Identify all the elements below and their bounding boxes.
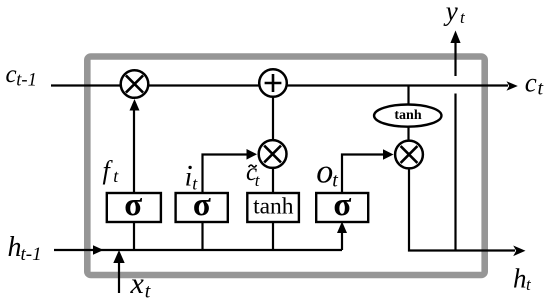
svg-text:t: t — [145, 281, 151, 303]
wire candidate vertical (x=273, c-line to h-line) — [272, 85, 274, 250]
arrowhead c_t — [507, 81, 518, 90]
wire x_t input vertical — [118, 261, 120, 293]
svg-text:ı: ı — [185, 161, 193, 191]
svg-text:h: h — [8, 232, 22, 263]
label c-tilde_t — [246, 159, 261, 190]
arrowhead on h-line entry — [93, 245, 104, 255]
wire forget-gate vertical (x=134) — [133, 103, 135, 250]
multiplier node forget (x) — [121, 70, 149, 98]
svg-text:t: t — [332, 169, 338, 191]
gate box sigma o — [316, 193, 368, 222]
svg-text:o: o — [316, 153, 333, 190]
label f_t — [103, 156, 120, 186]
gate box tanh — [247, 193, 299, 222]
svg-text:c: c — [525, 67, 537, 97]
gate box sigma f — [107, 193, 161, 222]
svg-text:t-1: t-1 — [16, 71, 37, 91]
wire y_t vertical upper segment — [454, 41, 456, 76]
arrowhead into sigma o box — [337, 222, 347, 234]
arrowhead into output multiplier — [383, 149, 394, 160]
arrowhead into input multiplier — [247, 149, 258, 160]
arrowhead y_t — [450, 31, 460, 44]
label h_t — [513, 263, 532, 294]
wire output-gate elbow to right multiplier (x=342) — [342, 155, 385, 193]
wire c-line (cell state, y=85) — [51, 84, 508, 86]
svg-text:y: y — [443, 0, 458, 26]
svg-text:σ: σ — [333, 187, 351, 223]
label x_t — [130, 267, 151, 303]
label h_{t-1} — [8, 232, 42, 265]
wire h output path — [409, 160, 515, 251]
svg-text:h: h — [513, 263, 527, 293]
label o_t — [316, 153, 338, 191]
svg-text:x: x — [130, 267, 145, 300]
gate box sigma i — [176, 193, 228, 222]
LSTM cell border — [87, 57, 484, 276]
svg-text:σ: σ — [124, 187, 142, 223]
multiplier node input (x) — [259, 140, 287, 168]
wire input-gate vertical + elbow to multiplier (x=202.5) — [203, 155, 250, 251]
label i_t — [185, 161, 199, 193]
svg-text:c: c — [6, 61, 17, 88]
label c_t — [525, 67, 544, 99]
multiplier node output (x) — [395, 141, 423, 169]
adder node (+) — [259, 69, 287, 97]
arrowhead into forget multiplier — [130, 99, 140, 111]
label y_t — [443, 0, 466, 27]
arrowhead h_t — [513, 246, 525, 257]
label c_{t-1} — [6, 61, 37, 91]
svg-text:t-1: t-1 — [21, 244, 42, 265]
svg-text:tanh: tanh — [394, 108, 421, 123]
svg-text:tanh: tanh — [253, 194, 294, 220]
wire h-line branch into output gate (x=342) — [341, 231, 343, 250]
tanh ellipse — [374, 105, 441, 127]
wire y_t vertical lower segment — [454, 94, 456, 251]
arrowhead x_t — [113, 250, 124, 263]
svg-text:t: t — [538, 78, 544, 100]
wire h-line left (hidden state in, y=250) — [54, 249, 342, 251]
wire tanh branch vertical (x=408.5) — [407, 85, 409, 145]
